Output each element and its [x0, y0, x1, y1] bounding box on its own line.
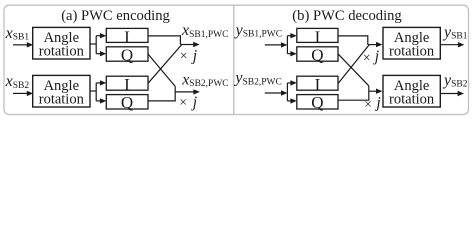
block Q2	[106, 93, 148, 112]
block I1	[106, 27, 148, 46]
svg-text:×: ×	[180, 48, 188, 63]
svg-text:×: ×	[179, 95, 187, 110]
block I2 decoder	[297, 75, 338, 94]
wire input xSB2 arrow	[13, 91, 33, 96]
block Q1 decoder	[297, 45, 338, 64]
wire output ySB2 arrow	[440, 91, 464, 96]
angle rotation block A1	[33, 27, 90, 59]
wire I1 decoder to merge B1	[338, 36, 382, 47]
wire input ySB1,PWC arrow	[265, 42, 288, 47]
wire Q2 to lower output merge	[148, 86, 200, 101]
angle rotation block B2	[383, 75, 440, 107]
wire splitter input2 to I2 and Q2 decoder	[287, 80, 296, 103]
svg-text:rotation: rotation	[39, 92, 85, 108]
wire splitter input1 to I1 and Q1 decoder	[287, 33, 296, 56]
wire splitter A1 to I1 and Q1	[90, 33, 106, 56]
wire splitter A2 to I2 and Q2	[90, 80, 106, 103]
svg-text:I: I	[315, 27, 321, 46]
svg-text:rotation: rotation	[39, 44, 85, 60]
svg-text:×: ×	[364, 97, 372, 112]
svg-text:Q: Q	[121, 93, 133, 112]
wire Q2 decoder to merge B2	[339, 86, 383, 100]
svg-text:Q: Q	[311, 93, 323, 112]
block Q1	[106, 45, 148, 64]
wire input ySB2,PWC arrow	[265, 90, 288, 95]
svg-text:(a) PWC encoding: (a) PWC encoding	[61, 8, 170, 24]
wire Q1 decoder cross down	[338, 54, 369, 86]
svg-text:Q: Q	[311, 45, 323, 64]
block I2	[106, 75, 148, 94]
svg-text:I: I	[124, 27, 130, 46]
svg-text:rotation: rotation	[389, 44, 435, 60]
angle rotation block A2	[33, 75, 90, 107]
block I1 decoder	[297, 27, 338, 46]
block Q2 decoder	[297, 93, 338, 112]
wire I2 cross up to upper merge (times j)	[148, 45, 182, 84]
svg-text:Q: Q	[121, 45, 133, 64]
wire I2 decoder cross up (times j)	[338, 45, 369, 84]
svg-text:(b) PWC decoding: (b) PWC decoding	[292, 8, 402, 24]
panel divider	[233, 6, 235, 115]
border frame	[4, 5, 469, 114]
angle rotation block B1	[383, 27, 440, 59]
svg-text:×: ×	[363, 50, 371, 65]
svg-text:rotation: rotation	[389, 92, 435, 108]
wire Q1 cross down to lower merge	[148, 54, 175, 86]
wire output ySB1 arrow	[440, 42, 464, 47]
wire input xSB1 arrow	[13, 42, 33, 47]
svg-text:I: I	[315, 75, 321, 94]
wire I1 to upper output merge	[148, 36, 200, 47]
svg-text:I: I	[124, 75, 130, 94]
